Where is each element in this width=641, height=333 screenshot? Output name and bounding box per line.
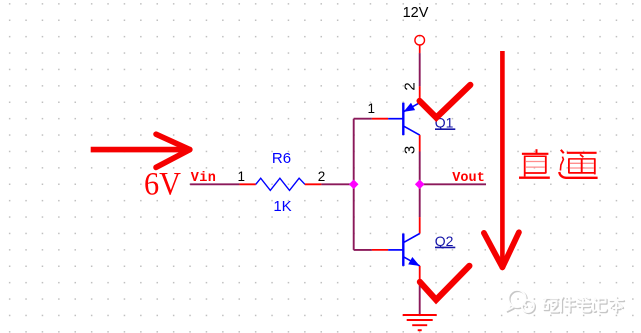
power port circle terminal [415,35,425,45]
wire to Q2 base [354,249,372,251]
pin 3 of Q1 [419,135,421,151]
wire base bus vertical [353,119,355,250]
power port pin [419,45,421,53]
svg-text:Q2: Q2 [435,233,454,249]
pin of Q2 base [372,249,388,251]
wire Vin to R6 [190,183,239,185]
annotation check mark at ground [420,266,470,300]
watermark logo and text (embossed white/gray) [507,290,625,313]
transistor Q2 (NPN) base bar [402,234,404,266]
Q1 emitter lead [403,103,419,112]
annotation arrow down (shoot-through) [484,51,519,267]
wire R6 to base bus [321,183,353,185]
ground symbol [403,315,437,330]
designator Q1 [435,115,456,131]
wire Q1 collector to Vout node [419,152,421,185]
Q2 collector lead [403,234,419,243]
pin 2 of Q1 [419,86,421,102]
junction base bus [349,180,359,190]
wire to Q1 base [354,118,372,120]
svg-text:R6: R6 [272,150,291,167]
svg-text:6V: 6V [144,166,181,202]
Q1 collector lead [403,126,419,135]
pin of Q2 collector [419,217,421,233]
Q2 base lead (blue) [388,249,403,251]
transistor Q1 (PNP) base bar [402,103,404,135]
annotation arrow left (input) [91,134,190,167]
wire Vout to the right [420,183,486,185]
svg-text:Vout: Vout [452,171,485,186]
wire Q2 emitter to ground [419,282,421,315]
Q1 emitter arrow (PNP, pointing into base) [405,104,415,112]
annotation text 直 (zhi) [519,149,550,178]
resistor R6 body [256,178,305,190]
svg-text:Vin: Vin [191,171,216,186]
pin 1 of R6 [239,183,255,185]
pin 1 of Q1 [372,118,388,120]
Q2 emitter lead [403,257,419,266]
designator Q2 [435,233,456,249]
svg-text:2: 2 [318,169,326,184]
svg-text:12V: 12V [403,5,429,21]
wire 12V to Q1 emitter [419,53,421,86]
Q2 emitter arrow (NPN, pointing out) [409,258,419,265]
pin of Q2 emitter [419,266,421,282]
wire Vout node to Q2 collector [419,184,421,217]
svg-text:3: 3 [401,146,418,154]
annotation check mark at Q1 [420,85,471,118]
svg-text:1: 1 [368,101,376,116]
junction Vout node [415,180,425,190]
svg-text:1K: 1K [273,198,291,215]
pin 2 of R6 [305,183,321,185]
svg-text:2: 2 [401,82,418,90]
Q1 base lead (blue) [388,118,403,120]
svg-text:1: 1 [237,169,245,184]
annotation text 通 (tong) [559,150,597,178]
